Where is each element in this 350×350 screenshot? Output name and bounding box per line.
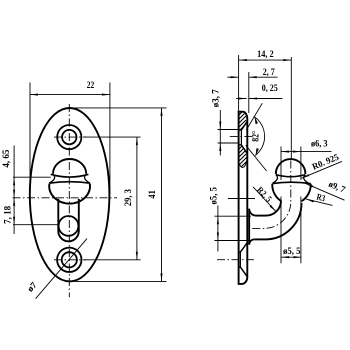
bottom hole center extension line [84, 259, 141, 261]
dimension 2,7: right arrow [249, 76, 257, 78]
dimension 4,65: top arrow [13, 177, 15, 185]
knob groove right wall (front) [85, 175, 90, 183]
svg-text:41: 41 [147, 190, 157, 199]
dimension diameter 5,5 left: lower extension line [214, 240, 251, 242]
knob horizontal centerline [13, 197, 118, 199]
boss bottom fillet [249, 239, 254, 244]
radius R2,5 leader [253, 187, 276, 212]
dimension diameter 5,5 left: lower arrow [217, 233, 219, 241]
top screw hole bore (inner circle) [62, 130, 76, 144]
dimension 4,65: bottom arrow [13, 190, 15, 198]
ball collar lower line (side) [272, 182, 310, 183]
dimension diameter 6,3: dimension line [281, 151, 332, 153]
dimension 0,25: right arrow [249, 97, 257, 99]
svg-text:22: 22 [87, 80, 95, 90]
svg-text:82°: 82° [250, 130, 260, 141]
dimension 7,18: bottom arrow [13, 217, 15, 225]
top hole horizontal centerline [54, 136, 86, 138]
vertical centerline of front view [68, 104, 70, 297]
dimension 0,25: right arrow line [249, 98, 282, 100]
radius R3 leader [306, 199, 332, 205]
dimension 2,7: left arrow [231, 76, 239, 78]
extension line hook tip center [13, 224, 58, 226]
section break line [239, 160, 248, 168]
radius R0,925 arrow [302, 174, 310, 178]
hook tip circle (front) [59, 216, 79, 236]
section hatching upper block [232, 96, 248, 140]
dimension diameter 5,5 bottom: right extension line [300, 197, 302, 264]
dimension diameter 6,3: right arrow [293, 151, 301, 153]
top hole countersink lower cone [241, 145, 247, 154]
dimension 22: right arrow [102, 94, 110, 96]
bottom hole bore lower line [239, 266, 241, 268]
dimension 14,2: right arrow [283, 59, 291, 61]
dimension 22: left arrow [30, 94, 38, 96]
section hatching lower block [232, 138, 249, 173]
oval plate outline [30, 108, 110, 281]
dimension 2,7: right arrow line [249, 76, 278, 78]
hook shaft left edge (front) [57, 199, 59, 231]
hook elbow inner fillet [266, 201, 281, 216]
radius R0,925 leader [302, 161, 342, 178]
dimension diameter 5,5 bottom: left arrow [281, 256, 289, 258]
boss face on plate [248, 209, 250, 245]
bottom hole countersink lower cone [240, 267, 247, 277]
hook elbow outer fillet [265, 203, 302, 239]
svg-text:29, 3: 29, 3 [123, 189, 133, 206]
ball collar upper line (side) [276, 175, 306, 177]
dimension 14,2: left extension line [238, 55, 240, 111]
82 degree angle: arc [254, 117, 265, 156]
dimension diameter 5,5 bottom: left extension line [280, 197, 282, 264]
svg-text:ø5, 5: ø5, 5 [208, 187, 218, 205]
bottom screw hole countersink (outer circle) [57, 248, 81, 272]
ellipse bottom extension line [74, 280, 167, 282]
ball dome (side) [276, 159, 306, 174]
ball groove left wall (side) [273, 175, 278, 183]
bottom screw hole bore (inner circle) [62, 252, 77, 267]
hook shaft right edge (front) [78, 199, 80, 231]
dimension 2,7: left arrow line [227, 76, 238, 78]
svg-text:0, 25: 0, 25 [262, 83, 278, 93]
top hole bore lower line [239, 144, 242, 146]
diameter 9,7 arrow [305, 183, 313, 187]
dimension 4,65 / 7,18: dimension line [13, 146, 15, 235]
hook arm top edge [256, 215, 266, 217]
ball groove right wall (side) [304, 175, 309, 183]
dimension 14,2: dimension line [239, 59, 291, 61]
knob groove left wall (front) [50, 175, 55, 183]
ellipse top extension line [72, 107, 167, 109]
82 degree angle: lower arrow [256, 148, 259, 156]
dimension 22: right extension line [109, 83, 111, 195]
svg-text:14, 2: 14, 2 [257, 49, 274, 59]
dimension diameter 3,7: upper arrow [219, 122, 221, 130]
dimension 22: dimension line [30, 94, 110, 96]
hole axis centerline bottom [217, 259, 256, 261]
dimension diameter 6,3: left arrow [281, 151, 289, 153]
svg-text:2, 7: 2, 7 [263, 67, 275, 77]
dimension 29,3: bottom arrow [136, 252, 138, 260]
dimension 41: bottom arrow [160, 273, 162, 281]
extension line collar top [13, 176, 51, 178]
dimension 0,25: left arrow [239, 97, 247, 99]
knob collar upper line (front) [51, 174, 89, 177]
dimension diameter 3,7: lower extension line [218, 142, 238, 144]
hook shaft round tip cap (front) [58, 231, 79, 241]
82 degree angle: upper ray [246, 103, 262, 130]
svg-text:ø3, 7: ø3, 7 [210, 89, 220, 108]
hook arm bottom edge [254, 238, 265, 240]
dimension 29,3: dimension line [136, 137, 138, 260]
dimension 2,7: boss extension line [248, 72, 250, 113]
top hole bore edge [240, 130, 242, 145]
radius R2,5 arrow [270, 205, 276, 211]
dimension diameter 5,5 bottom: dimension line [281, 256, 301, 258]
hole axis centerline top [230, 136, 254, 138]
leader line for diameter 7 [36, 239, 87, 299]
hook tube centerline [252, 161, 291, 229]
dimension 7,18: top arrow [13, 198, 15, 206]
knob ball lower half (front) [49, 184, 90, 204]
plate profile outline [239, 112, 248, 284]
top screw hole countersink (outer circle) [57, 125, 81, 149]
ball lower-right arc (side) [302, 184, 311, 201]
svg-text:7, 18: 7, 18 [2, 205, 12, 224]
dimension diameter 5,5 left: dimension line [217, 206, 219, 252]
dimension 14,2: left arrow [239, 59, 247, 61]
dimension 29,3: top arrow [136, 137, 138, 145]
dimension 14,2: right extension line [290, 57, 292, 159]
82 degree angle: upper arrow [254, 116, 258, 124]
knob dome (front) [53, 159, 86, 174]
dimension 22: left extension line [29, 83, 31, 194]
dimension diameter 3,7: dimension line [219, 110, 221, 156]
dimension diameter 3,7: upper extension line [218, 129, 238, 131]
82 degree angle: lower ray [246, 145, 267, 171]
dimension diameter 6,3: left extension line [280, 147, 282, 181]
diameter 9,7 leader [305, 183, 344, 200]
dimension 41: top arrow [160, 108, 162, 116]
dimension 41: dimension line [161, 108, 163, 282]
bottom hole bore upper line [239, 251, 241, 253]
dimension 0,25: left arrow line [236, 98, 247, 100]
dimension diameter 6,3: right extension line [300, 147, 302, 181]
top hole center extension line [84, 136, 141, 138]
dimension diameter 5,5 left: upper extension line [214, 215, 251, 217]
dimension diameter 5,5 left: upper arrow [217, 216, 219, 224]
knob level projection line [228, 198, 255, 200]
ball lower-left arc (side) [272, 184, 281, 201]
svg-text:ø5, 5: ø5, 5 [283, 246, 301, 256]
knob collar lower line (front) [49, 182, 90, 184]
top hole countersink upper cone [241, 121, 247, 130]
boss top fillet [249, 209, 256, 216]
radius R3 arrow [306, 199, 314, 202]
svg-text:ø6, 3: ø6, 3 [311, 138, 328, 148]
dimension diameter 3,7: lower arrow [219, 143, 221, 151]
svg-text:4, 65: 4, 65 [1, 149, 11, 168]
dimension diameter 5,5 bottom: right arrow [294, 256, 302, 258]
bottom hole bore edge [239, 252, 241, 267]
bottom hole countersink upper cone [240, 242, 247, 252]
top hole bore upper line [239, 129, 242, 131]
bottom hole horizontal centerline [54, 259, 86, 261]
